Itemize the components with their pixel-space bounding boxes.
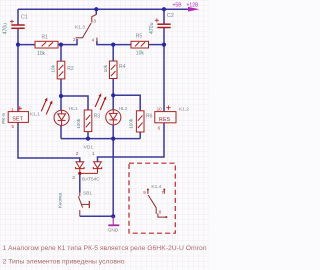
svg-text:2: 2 <box>76 151 79 156</box>
svg-text:10k: 10k <box>136 51 145 57</box>
wire R1 right to K1.3 pin2 riser <box>58 39 77 45</box>
svg-text:BAT54C: BAT54C <box>82 176 100 182</box>
wire HL2 bottom <box>112 125 114 139</box>
junction R4 top <box>111 43 115 47</box>
svg-text:K1.4: K1.4 <box>151 184 161 190</box>
pushbutton SB1 <box>58 191 93 217</box>
svg-text:100k: 100k <box>128 118 133 129</box>
junction R3 bottom rail <box>86 137 90 141</box>
wire R4 top drop <box>112 45 114 61</box>
contact K1.4 <box>143 184 167 218</box>
wire HL1 top <box>60 96 62 110</box>
wire SB1 bottom to GND node <box>80 215 113 217</box>
svg-text:9: 9 <box>143 190 146 195</box>
svg-text:K1.2: K1.2 <box>179 106 189 112</box>
wire left rail upper <box>17 9 19 24</box>
svg-text:HL1: HL1 <box>69 106 78 112</box>
svg-text:R2: R2 <box>67 66 74 72</box>
wire C1 bottom to R1 row <box>17 29 19 45</box>
svg-text:10k: 10k <box>37 51 46 57</box>
wire R4 bottom to node <box>112 79 114 96</box>
resistor R2 <box>51 61 74 79</box>
svg-text:SET: SET <box>12 117 23 123</box>
ground GND <box>108 216 120 233</box>
junction C1 / R1 <box>16 43 20 47</box>
wire R2 bottom to node <box>60 79 62 96</box>
svg-text:2: 2 <box>73 37 76 42</box>
wire coil K1.2 to VD1 pin1 <box>98 123 165 162</box>
svg-text:470u: 470u <box>3 23 9 35</box>
wire C2 rail upper <box>163 9 165 24</box>
junction R2 / HL1 / R3 <box>59 94 63 98</box>
svg-text:3: 3 <box>72 175 75 180</box>
dual diode VD1 BAT54C <box>72 144 102 182</box>
svg-text:+12B: +12B <box>187 3 199 9</box>
svg-text:1: 1 <box>11 107 14 112</box>
svg-text:8: 8 <box>159 209 162 214</box>
wire R6 bottom <box>139 132 141 139</box>
svg-text:1 Аналогом реле К1 типа РК-5 я: 1 Аналогом реле К1 типа РК-5 является ре… <box>3 245 207 252</box>
svg-text:HL2: HL2 <box>119 106 128 112</box>
wire R3 bottom <box>87 132 89 139</box>
svg-text:3: 3 <box>93 18 96 23</box>
svg-text:VD1: VD1 <box>84 144 94 150</box>
wire HL1 bottom <box>60 125 62 138</box>
note 2 <box>3 259 126 266</box>
capacitor C1 <box>3 14 28 34</box>
junction R4 / HL2 / R6 <box>111 93 115 97</box>
wire K1.3 pin3 from top rail <box>95 9 97 14</box>
svg-text:SB1: SB1 <box>83 191 92 197</box>
wire R5 right to C2 rail <box>149 44 165 46</box>
junction R1 / R2 <box>59 43 63 47</box>
svg-text:2 Типы элементов приведены усл: 2 Типы элементов приведены условно <box>3 259 126 266</box>
svg-text:C1: C1 <box>21 14 28 20</box>
svg-text:R6: R6 <box>146 113 153 119</box>
svg-text:R3: R3 <box>94 113 101 119</box>
svg-text:10k: 10k <box>51 64 56 72</box>
wire HL2 top <box>112 95 114 110</box>
svg-text:Кнопка: Кнопка <box>58 192 63 208</box>
svg-text:100k: 100k <box>76 118 81 129</box>
capacitor C2 <box>149 13 174 34</box>
wire node to R3 top <box>61 96 88 110</box>
svg-text:470u: 470u <box>149 22 155 34</box>
svg-text:5: 5 <box>12 124 15 129</box>
resistor R6 <box>128 111 152 132</box>
junction HL2 bottom rail <box>111 137 115 141</box>
wire GND drop <box>112 139 114 217</box>
LED HL2 <box>95 93 128 125</box>
svg-text:6: 6 <box>158 126 161 131</box>
svg-text:C2: C2 <box>167 13 174 19</box>
junction top rail / C2 <box>162 7 166 11</box>
wire K1.3 pin4 to R5 <box>97 41 131 45</box>
wire top rail <box>18 8 189 10</box>
junction SB1 / GND <box>111 214 115 218</box>
resistor R1 <box>35 35 58 57</box>
svg-text:K1.1: K1.1 <box>30 111 40 117</box>
LED HL1 <box>41 98 78 126</box>
resistor R4 <box>103 61 126 79</box>
svg-text:+5B: +5B <box>173 3 183 9</box>
junction R5 / C2 rail <box>162 43 166 47</box>
wire bottom LED rail <box>61 138 140 140</box>
wire node to R6 top <box>113 95 140 111</box>
svg-text:R1: R1 <box>42 35 49 41</box>
svg-text:7: 7 <box>161 190 164 195</box>
note 1 <box>3 245 207 252</box>
spare contact K1.4 dashed box <box>129 163 175 233</box>
wire coil K1.1 to VD1 pin2 <box>18 122 80 161</box>
svg-text:4: 4 <box>92 37 95 42</box>
resistor R3 <box>76 110 100 132</box>
junction top rail / K1.3 <box>94 7 98 11</box>
resistor R5 <box>131 33 149 56</box>
svg-text:GND: GND <box>108 227 119 233</box>
wire R2 top drop <box>60 45 62 62</box>
svg-text:R4: R4 <box>119 64 126 70</box>
relay coil K1.2 RES <box>155 106 189 131</box>
svg-text:RES: RES <box>159 117 171 123</box>
svg-text:10: 10 <box>157 106 163 111</box>
svg-text:K1.3: K1.3 <box>75 24 85 30</box>
contact K1.3 <box>73 15 97 43</box>
svg-text:PK-5: PK-5 <box>1 113 7 124</box>
relay coil K1.1 SET <box>1 106 40 129</box>
supply arrow +5B +12B <box>173 3 200 12</box>
svg-text:1: 1 <box>92 151 95 156</box>
svg-text:R5: R5 <box>136 33 143 39</box>
wire VD1 common to SB1 <box>79 173 81 192</box>
wire C2 rail down to coil K1.2 <box>163 28 165 112</box>
wire left rail to coil K1.1 <box>17 45 19 112</box>
wire R1 left <box>18 44 35 46</box>
svg-text:10k: 10k <box>103 64 108 72</box>
